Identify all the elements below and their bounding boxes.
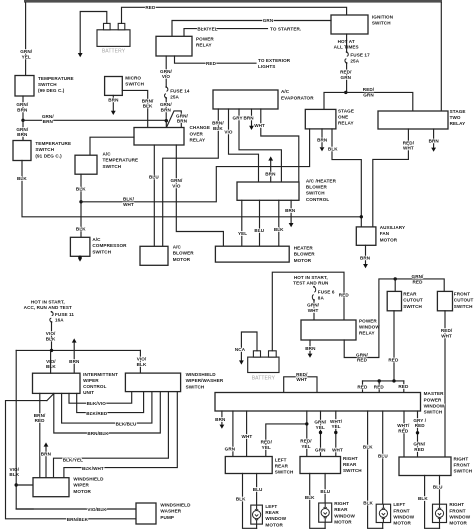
svg-text:HOT IN START,: HOT IN START, [294,275,328,280]
svg-text:REAR: REAR [265,510,279,515]
svg-text:ACC, RUN AND TEST: ACC, RUN AND TEST [24,305,72,310]
svg-text:RIGHT: RIGHT [454,456,469,461]
svg-text:BRN/BLK: BRN/BLK [87,431,109,436]
svg-text:RED: RED [206,61,217,66]
wire BRN aux fan to ground [365,245,367,263]
svg-text:BLK/RED: BLK/RED [86,411,108,416]
ground stage two relay [431,148,436,152]
micro switch [105,77,123,96]
junction RED/YEL [305,422,308,425]
svg-text:BLK/WHT: BLK/WHT [82,466,104,471]
wire RED stub right [403,381,405,393]
junction RED/GRN node [344,91,347,94]
svg-text:BLK: BLK [143,104,153,109]
svg-text:SWITCH: SWITCH [343,468,362,473]
svg-text:ONE: ONE [338,114,348,119]
svg-text:TEMPERATURE: TEMPERATURE [35,141,71,146]
wire RED rear cutout to junction [393,311,395,381]
A/C heater blower switch control [237,182,299,200]
svg-text:A/C: A/C [173,245,182,250]
wire GRN/VIO change-over to heater blower motor [176,145,223,246]
svg-text:(91 DEG C.): (91 DEG C.) [35,153,62,158]
svg-text:BLK: BLK [236,496,246,501]
wire BRN evaporator to ground [251,109,253,125]
svg-text:BLK: BLK [363,445,373,450]
svg-text:RIGHT: RIGHT [449,502,464,507]
svg-text:BLK/YEL: BLK/YEL [63,458,83,463]
scan border top bar [24,0,442,3]
ground stage one relay [320,147,325,151]
wire BRN stage one to ground [321,129,323,147]
svg-text:TO EXTERIOR: TO EXTERIOR [258,58,291,63]
wire change-over relay to A/C temperature switch [90,137,134,155]
wire VIO evaporator to blower switch control [229,109,259,182]
svg-text:MOTOR: MOTOR [449,521,467,526]
svg-text:GRY /: GRY / [413,418,426,423]
svg-text:BRN: BRN [285,208,296,213]
junction wiper motor feed [15,483,18,486]
wire GRN power relay to ignition switch [172,21,331,37]
wire BLK/YEL to starter [184,29,268,37]
svg-text:PUMP: PUMP [160,515,174,520]
svg-text:IGNITION: IGNITION [372,14,394,19]
junction RED a [378,379,381,382]
wire BLK/WHT switch to wiper motor [64,392,177,478]
left rear switch [225,457,272,474]
svg-text:BLK: BLK [328,146,338,151]
svg-text:RED: RED [413,279,424,284]
junction BLK bus at aux fan [360,215,363,218]
intermittent wiper control unit [33,373,81,393]
svg-text:FRONT: FRONT [393,508,409,513]
svg-text:RIGHT: RIGHT [343,456,358,461]
svg-text:BATTERY: BATTERY [252,375,276,381]
svg-text:WHT: WHT [123,202,134,207]
right rear window motor [319,503,332,522]
svg-text:WHT: WHT [242,434,253,439]
svg-text:SWITCH: SWITCH [306,191,325,196]
svg-text:BLK: BLK [363,500,373,505]
svg-text:MASTER: MASTER [424,391,445,396]
wire BLK to heater blower [278,200,280,246]
svg-text:16A: 16A [55,318,64,323]
right front switch [399,457,451,476]
svg-text:SWITCH: SWITCH [454,468,473,473]
svg-text:RED: RED [415,423,426,428]
svg-text:BLK: BLK [274,227,284,232]
fuse 6 symbol [312,287,315,300]
ground arrow switch control top [268,156,273,160]
svg-text:BLK: BLK [46,337,56,342]
svg-text:GRN/: GRN/ [307,303,320,308]
ground micro switch [111,111,116,115]
svg-text:WINDOW: WINDOW [334,513,355,518]
svg-text:MOTOR: MOTOR [393,521,411,526]
svg-text:VIO: VIO [162,74,171,79]
svg-text:GRN/: GRN/ [412,274,425,279]
svg-text:BLK/: BLK/ [123,197,135,202]
svg-text:TO STARTER.: TO STARTER. [270,26,301,31]
svg-text:FUSE 17: FUSE 17 [350,52,370,57]
svg-text:LEFT: LEFT [393,502,405,507]
svg-text:FAN: FAN [380,231,390,236]
arrow BRN wiper motor ground [44,442,49,446]
wire left rear motor bottom [256,524,258,528]
svg-text:CUTOUT: CUTOUT [454,298,474,303]
svg-text:BLK/BLU: BLK/BLU [116,422,137,427]
wire GRN/WHT fuse 6 to relay [313,300,315,320]
svg-text:WINDSHIELD: WINDSHIELD [160,503,191,508]
wire BLU master to left front motor [382,411,384,504]
wire BRN into wiper control unit [73,343,75,374]
svg-text:GRN/: GRN/ [16,102,29,107]
wire BLU right rear to motor [324,474,326,504]
svg-text:RED: RED [398,384,409,389]
svg-text:BRN: BRN [429,138,440,143]
svg-text:WIPER: WIPER [73,483,89,488]
svg-text:RED/: RED/ [441,328,453,333]
svg-text:RED/: RED/ [403,140,415,145]
svg-text:BRN: BRN [265,171,276,176]
svg-text:BATTERY: BATTERY [102,48,126,54]
wire BRN master ground [221,411,223,424]
A/C blower motor [140,246,168,265]
svg-text:CHANGE: CHANGE [190,125,211,130]
wire ignition to fuse 17 [346,34,348,52]
wire BLK from temp91 to long bus [22,161,361,217]
svg-text:TEMPERATURE: TEMPERATURE [38,76,74,81]
ground compressor switch [78,258,82,261]
svg-text:VIO/BLK: VIO/BLK [87,507,107,512]
svg-text:WINDOW: WINDOW [359,324,380,329]
wire junction into change-over relay [165,121,167,128]
svg-text:WHT: WHT [403,146,414,151]
svg-text:BLK: BLK [46,364,56,369]
svg-text:GRN: GRN [363,92,374,97]
wire right front motor bottom [439,523,441,529]
wire BLU left rear to motor [256,474,258,506]
wire RED/GRN to stage two relay [346,92,413,111]
ground evaporator BRN [249,126,254,130]
svg-text:GRN: GRN [315,447,326,452]
svg-text:SWITCH: SWITCH [38,82,57,87]
arrow BRN from above [72,338,77,342]
svg-text:CONTROL: CONTROL [83,384,107,389]
svg-text:RED/: RED/ [363,87,375,92]
svg-text:BLK/YEL: BLK/YEL [197,26,217,31]
svg-text:BRN: BRN [177,119,188,124]
svg-text:GRN/: GRN/ [356,352,369,357]
wire junction down to temp91 [22,120,24,140]
wire GRN/RED to rear cutout [394,279,396,292]
junction BLK/WHT node [79,200,82,203]
svg-text:WINDSHIELD: WINDSHIELD [73,477,104,482]
svg-text:SWITCH: SWITCH [35,147,54,152]
wire BLU to heater blower [259,200,261,246]
wire WHT/YEL master to right rear switch [335,411,337,456]
master power window switch [215,393,421,412]
wire GRN/BRN bus to change-over relay [23,119,166,121]
svg-text:TEMPERATURE: TEMPERATURE [103,158,139,163]
svg-text:BLU: BLU [253,487,263,492]
svg-text:A/C: A/C [281,89,290,94]
svg-text:BLK: BLK [418,496,428,501]
wire BRN micro switch to ground [112,95,114,110]
svg-text:RIGHT: RIGHT [334,501,349,506]
svg-text:A/C /HEATER: A/C /HEATER [306,179,337,184]
wire BLK/BLU control unit to switch [62,392,152,424]
svg-text:CUTOUT: CUTOUT [403,298,423,303]
wire BRN/BLK control unit to switch [54,392,161,433]
ignition switch [331,15,368,34]
svg-text:GRN: GRN [263,18,274,23]
wire BLU right front to motor [439,476,441,505]
svg-text:VIO: VIO [172,183,181,188]
svg-text:RED: RED [35,418,46,423]
svg-text:ALL TIMES: ALL TIMES [334,45,359,50]
svg-text:RED: RED [374,385,385,390]
svg-text:BRN: BRN [108,98,119,103]
temperature switch 91 deg [13,141,31,161]
wire YEL to heater blower [241,200,243,246]
svg-text:BRN/: BRN/ [212,121,224,126]
svg-text:RED: RED [145,5,156,10]
A/C compressor switch [70,237,90,256]
svg-text:STAGE: STAGE [450,109,466,114]
svg-text:WHT: WHT [332,448,343,453]
wire RED battery 2 to power window relay [272,272,344,351]
svg-text:BLOWER: BLOWER [294,252,316,257]
svg-text:A/C: A/C [92,237,101,242]
rear cutout switch [387,291,401,310]
power window relay [301,320,356,340]
svg-text:MOTOR: MOTOR [334,519,352,524]
svg-text:FUSE 6: FUSE 6 [318,289,335,294]
svg-text:RELAY: RELAY [190,137,206,142]
svg-text:VIO: VIO [224,129,233,134]
svg-text:BRN: BRN [17,108,28,113]
wire RED to exterior lights [175,56,257,63]
svg-text:POWER: POWER [196,37,214,42]
blade intermittent wiper control [47,394,54,401]
wire temp99 to junction [22,96,24,120]
right front window motor [433,504,447,522]
svg-text:WHT: WHT [308,308,319,313]
svg-text:RED: RED [339,292,350,297]
ground dot compressor [78,255,82,259]
arrow NCA down [239,360,244,364]
power relay [156,36,192,56]
wire GRN/RED relay to cutout switches [344,279,444,358]
wire BRN wiper motor [45,447,47,478]
svg-text:BRN/BLK: BRN/BLK [67,517,89,522]
wire battery negative to ground [80,12,107,54]
ground aux fan [363,264,368,268]
svg-text:(99 DEG C.): (99 DEG C.) [38,88,65,93]
wire RED/WHT stage two to aux fan [373,129,409,227]
svg-text:FRONT: FRONT [454,462,470,467]
svg-text:WHT/: WHT/ [330,419,343,424]
svg-text:MICRO: MICRO [125,76,141,81]
svg-text:WIPER: WIPER [83,378,99,383]
wire RED stub mid [378,381,380,393]
svg-text:RED/: RED/ [261,440,273,445]
svg-text:MOTOR: MOTOR [380,237,398,242]
svg-text:TEST AND RUN: TEST AND RUN [293,281,329,286]
svg-text:BLK: BLK [76,186,86,191]
wire blade contact into relay [180,124,182,128]
svg-text:WASHER: WASHER [160,509,181,514]
svg-text:A/C: A/C [103,152,112,157]
svg-text:RED/: RED/ [340,70,352,75]
svg-text:SWITCH: SWITCH [424,410,443,415]
svg-text:RED/: RED/ [296,372,308,377]
svg-text:BLU: BLU [378,453,388,458]
wire BLK/RED control unit to switch [77,392,144,413]
wire right rear motor bottom [324,522,326,528]
wire BRN switch control up to ground [270,161,272,182]
wire VIO/BLK fuse 11 to bus [51,322,53,350]
svg-text:RELAY: RELAY [359,330,375,335]
svg-text:WIPER/WASHER: WIPER/WASHER [186,378,224,383]
svg-text:BLK: BLK [213,126,223,131]
windshield wiper/washer switch [125,373,180,392]
svg-text:VIO/: VIO/ [10,467,20,472]
svg-text:RELAY: RELAY [338,120,354,125]
svg-text:GRN/: GRN/ [413,442,426,447]
wire blade to left BRN/BLK drop [6,401,137,519]
left rear window motor [251,505,263,524]
svg-text:POWER: POWER [424,397,442,402]
wire BLK/YEL switch to wiper motor [54,392,169,478]
svg-text:BLU: BLU [254,228,264,233]
auxiliary fan motor [356,227,376,245]
svg-text:FUSE 11: FUSE 11 [55,312,74,317]
svg-text:RED: RED [357,358,368,363]
svg-text:BLU: BLU [149,175,159,180]
svg-text:SWITCH: SWITCH [454,304,473,309]
svg-text:BLK: BLK [9,472,19,477]
svg-text:EVAPORATOR: EVAPORATOR [281,95,314,100]
svg-text:RELAY: RELAY [450,121,466,126]
svg-text:BLU: BLU [433,484,443,489]
svg-text:UNIT: UNIT [83,390,94,395]
svg-text:25A: 25A [170,94,179,99]
svg-text:INTERMITTENT: INTERMITTENT [83,372,118,377]
svg-text:VIO/: VIO/ [137,357,147,362]
svg-text:GRN/: GRN/ [42,114,55,119]
svg-text:VIO/: VIO/ [46,331,56,336]
ground switch control bottom [289,223,294,227]
wire BLU change-over to A/C blower motor [153,145,155,246]
svg-text:BRN: BRN [305,346,316,351]
ground battery B1 [78,53,83,57]
windshield washer pump [136,503,156,524]
wire GRN/VIO power relay to fuse 14 [165,56,167,87]
wire VIO/BLK into wiper washer switch [139,350,141,373]
wire GRY/RED master to right front switch [417,411,419,457]
svg-text:RELAY: RELAY [196,43,212,48]
svg-text:HOT IN START,: HOT IN START, [31,300,65,305]
svg-text:SWITCH: SWITCH [275,470,294,475]
wire GRN master to left rear switch [232,411,234,457]
wire BLK/VIO control unit to switch [69,392,132,404]
windshield wiper motor [33,478,69,497]
svg-text:BLK: BLK [305,495,315,500]
change-over relay [134,128,184,146]
svg-text:WINDOW: WINDOW [393,514,414,519]
svg-text:YEL: YEL [331,424,340,429]
splice GRN/YEL [319,431,322,434]
wire BRN stage two to ground [433,129,435,147]
svg-text:WINDSHIELD: WINDSHIELD [186,372,217,377]
svg-text:BLK: BLK [76,226,86,231]
battery B1 [97,30,130,47]
svg-text:YEL: YEL [301,444,310,449]
wire VIO/BLK bus to control unit [50,350,52,373]
svg-text:FRONT: FRONT [454,292,470,297]
svg-text:TWO: TWO [450,115,461,120]
wire GRN/YEL from top bus to temperature switch [25,3,27,76]
wire VIO/BLK left drop [16,350,33,509]
wire RED/WHT front cutout to right front switch [444,311,446,457]
wire BRN switch control bottom ground [290,200,292,222]
A/C evaporator [213,90,278,109]
fuse 17 symbol [345,52,348,63]
svg-text:RED: RED [357,385,368,390]
svg-text:BRN/: BRN/ [34,413,46,418]
svg-text:GRN: GRN [341,75,352,80]
svg-text:GRN/: GRN/ [176,113,189,118]
wire BLK stage one to aux fan [332,129,361,227]
svg-text:BLK: BLK [17,176,27,181]
svg-text:HEATER: HEATER [294,246,314,251]
svg-text:MOTOR: MOTOR [265,522,283,527]
svg-text:BRN: BRN [360,256,371,261]
svg-text:SWITCH: SWITCH [92,249,111,254]
svg-text:BRN: BRN [17,132,28,137]
wire GRY evaporator to blower switch control [239,109,281,182]
svg-text:GRN/: GRN/ [160,69,173,74]
svg-text:REAR: REAR [403,292,417,297]
svg-text:YEL: YEL [238,231,247,236]
svg-text:WINDOW: WINDOW [449,514,470,519]
wire BLK left rear [243,474,257,529]
svg-text:REAR: REAR [275,464,289,469]
wire BLK right rear [310,474,325,529]
svg-text:RED/: RED/ [300,439,312,444]
svg-text:GRN/: GRN/ [170,178,183,183]
svg-text:YEL: YEL [22,55,31,60]
junction GRN/RED rear cutout [394,277,397,280]
wire left front motor bottom [382,523,384,529]
wire GRN/YEL master to right rear switch [320,411,322,456]
svg-text:WINDOW: WINDOW [265,516,286,521]
svg-text:STAGE: STAGE [338,108,354,113]
svg-text:RED: RED [414,447,425,452]
junction fuse11 bus [50,349,53,352]
temperature switch 99 deg [15,76,34,97]
svg-text:BLOWER: BLOWER [173,251,195,256]
left front window motor [376,504,390,522]
svg-text:SWITCH: SWITCH [403,304,422,309]
fuse 11 symbol [50,312,53,322]
battery B2 [248,357,279,372]
svg-text:SWITCH: SWITCH [186,384,205,389]
wire top bus to stage two relay [440,3,442,112]
right rear switch [300,457,341,474]
svg-text:RED: RED [398,429,409,434]
